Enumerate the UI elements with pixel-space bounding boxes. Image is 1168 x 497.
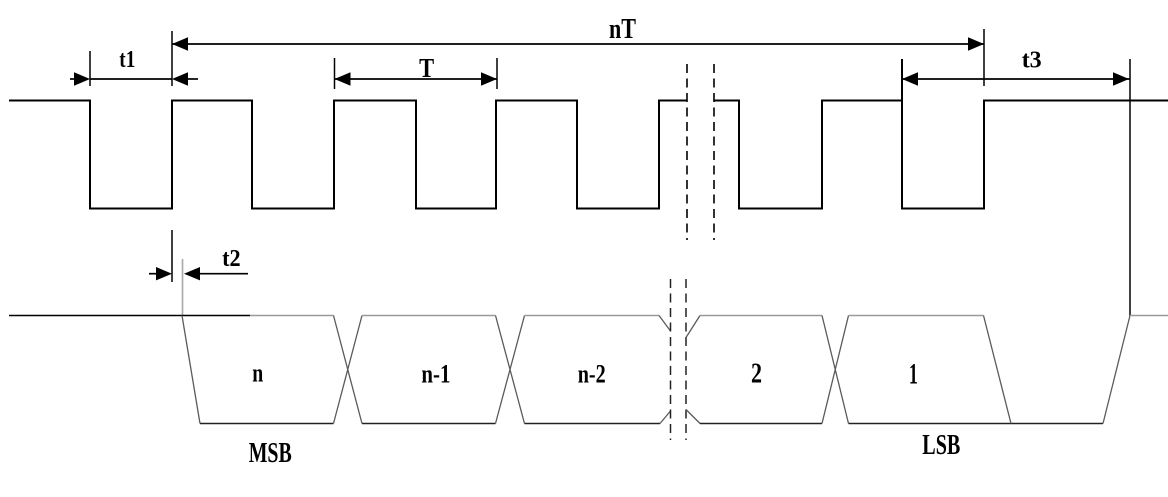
- svg-text:MSB: MSB: [249, 437, 292, 469]
- clock break dashed line right: [713, 64, 715, 240]
- t3 extension line at x=902: [901, 59, 903, 101]
- t1 right arrowhead: [172, 72, 188, 85]
- nT/t1 extension line at x=172: [171, 31, 173, 86]
- data bottom edge 1 and low tail: [849, 423, 1104, 425]
- svg-text:2: 2: [751, 359, 762, 390]
- bus 2 bottom break stub: [686, 410, 700, 424]
- data top edge n: [250, 315, 334, 317]
- data top tail right: [1130, 315, 1168, 317]
- t2 extension line black at x=172: [171, 230, 173, 282]
- data top edge 1: [849, 315, 984, 317]
- data end rising slope: [1103, 316, 1130, 424]
- nT right arrowhead: [968, 37, 984, 50]
- t1 dimension line: [90, 78, 172, 80]
- data bottom edge n-2: [525, 423, 661, 425]
- t3 right arrowhead: [1113, 72, 1129, 85]
- t1 left outside arrow tail: [70, 78, 75, 80]
- data break dashed line left: [670, 279, 672, 440]
- svg-text:n-2: n-2: [578, 360, 606, 389]
- data top edge n-1: [362, 315, 496, 317]
- svg-text:1: 1: [909, 358, 918, 391]
- svg-text:t2: t2: [222, 246, 241, 272]
- T left arrowhead: [335, 72, 351, 85]
- data start falling slope: [182, 316, 200, 424]
- svg-text:n: n: [252, 359, 263, 388]
- T dimension line: [335, 78, 498, 80]
- data top edge 2: [700, 315, 822, 317]
- t1 left arrowhead: [74, 72, 90, 85]
- n-2 top break stub: [659, 316, 671, 332]
- data break dashed line right: [685, 279, 687, 440]
- data bottom edge n-1: [362, 423, 496, 425]
- X transition n-1 to n-2: [496, 316, 525, 424]
- nT dimension line: [172, 43, 984, 45]
- data top edge n-2: [525, 315, 660, 317]
- t2 right arrowhead: [184, 267, 200, 280]
- data end falling slope: [984, 316, 1012, 424]
- t3 left arrowhead: [902, 72, 918, 85]
- t1 extension line at x=90: [89, 51, 91, 86]
- t3 dimension line: [902, 78, 1130, 80]
- t2 extension line gray at x=182.5: [182, 259, 184, 316]
- svg-text:t3: t3: [1022, 48, 1042, 74]
- t2 left outside arrow tail: [149, 273, 158, 275]
- t2 right outside arrow tail: [200, 273, 248, 275]
- X transition 2 to 1: [822, 316, 849, 424]
- T right arrowhead: [481, 72, 497, 85]
- bus 2 top break stub: [686, 316, 700, 338]
- T extension line left: [334, 58, 336, 89]
- nT extension line at x=984: [983, 29, 985, 86]
- svg-text:T: T: [419, 53, 434, 83]
- svg-text:n-1: n-1: [421, 360, 450, 389]
- t1 right outside arrow tail: [188, 78, 198, 80]
- nT left arrowhead: [172, 37, 188, 50]
- clock break dashed line left: [686, 64, 688, 240]
- data bottom edge n: [200, 423, 334, 425]
- data baseline black left: [9, 315, 250, 317]
- svg-text:nT: nT: [609, 13, 636, 45]
- X transition n to n-1: [334, 316, 363, 424]
- clock waveform: [9, 101, 1168, 209]
- t3 extension line at x=1130: [1129, 59, 1131, 316]
- T extension line right: [496, 58, 498, 89]
- n-2 bottom break stub: [660, 411, 671, 424]
- svg-text:t1: t1: [119, 47, 135, 73]
- t2 left arrowhead: [156, 267, 172, 280]
- svg-text:LSB: LSB: [922, 430, 960, 461]
- data bottom edge 2: [700, 423, 822, 425]
